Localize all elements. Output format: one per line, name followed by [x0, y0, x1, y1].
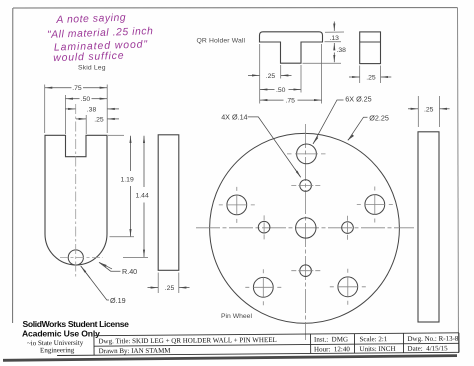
svg-text:A note saying: A note saying — [55, 13, 126, 26]
svg-text:Skid Leg: Skid Leg — [78, 65, 106, 72]
dim .38 — [333, 53, 335, 63]
qr right ext lines — [325, 31, 344, 33]
hole B1 top (6X .25) — [287, 144, 326, 164]
svg-text:Pin Wheel: Pin Wheel — [221, 313, 252, 320]
svg-text:QR Holder Wall: QR Holder Wall — [197, 38, 246, 45]
bottom scan band — [3, 356, 457, 361]
dim 1.19 — [110, 236, 135, 238]
svg-text:1.19: 1.19 — [121, 177, 134, 184]
qr side inner line — [360, 41, 381, 43]
pinwheel side ext lines — [417, 96, 419, 127]
svg-text:would suffice: would suffice — [53, 51, 124, 64]
hole B3 right-upper (6X .25) — [357, 187, 393, 223]
svg-text:.38: .38 — [87, 106, 97, 113]
ext lines side view — [157, 273, 159, 294]
dim .25 qr side — [349, 76, 391, 78]
hole S4 bottom (4X .14) — [291, 265, 320, 277]
svg-text:Ø2.25: Ø2.25 — [369, 113, 389, 122]
svg-text:1.44: 1.44 — [136, 193, 149, 200]
skid leg outline — [45, 135, 107, 265]
svg-text:.75: .75 — [72, 85, 82, 92]
skid side view rect — [158, 135, 179, 270]
border frame left — [12, 8, 14, 323]
dim .50 — [66, 98, 107, 100]
hole S3 right (4X .14) — [342, 216, 354, 240]
svg-text:.25: .25 — [94, 116, 104, 123]
svg-text:.75: .75 — [286, 98, 296, 105]
svg-text:.25: .25 — [424, 106, 434, 113]
extension line left edge — [44, 85, 46, 134]
skid leg hole — [68, 250, 83, 265]
svg-text:SolidWorks Student License: SolidWorks Student License — [23, 319, 130, 329]
svg-text:.38: .38 — [337, 47, 347, 54]
border frame top — [13, 7, 458, 9]
dim .25 side — [148, 287, 190, 289]
extension line slot right — [85, 115, 87, 134]
hole B6 center (6X .25) — [296, 218, 316, 238]
dim .25 — [76, 118, 119, 120]
svg-text:Academic Use Only: Academic Use Only — [22, 328, 100, 338]
table outline — [57, 333, 459, 356]
ext lines below — [259, 44, 261, 104]
svg-text:.25: .25 — [165, 285, 175, 292]
qr wall outline — [260, 32, 323, 63]
hole B5 right-lower (6X .25) — [330, 269, 366, 305]
svg-text:Engineering: Engineering — [40, 346, 75, 354]
svg-text:.13: .13 — [330, 35, 340, 42]
dim .13 — [333, 22, 335, 48]
hole S1 top (4X .14) — [291, 180, 320, 192]
svg-text:.25: .25 — [366, 75, 376, 82]
extension line slot left — [64, 95, 66, 134]
qr side ext lines — [359, 66, 361, 84]
svg-text:.50: .50 — [81, 96, 91, 103]
dim .75 — [45, 87, 107, 89]
skid leg vertical centerline — [75, 104, 77, 278]
handwritten note — [46, 12, 154, 65]
hole B4 left-lower (6X .25) — [245, 269, 281, 305]
dim .38 — [65, 108, 119, 110]
svg-text:6X Ø.25: 6X Ø.25 — [345, 94, 371, 103]
svg-text:R.40: R.40 — [122, 267, 137, 276]
svg-text:Drawn By: IAN STAMM: Drawn By: IAN STAMM — [99, 347, 172, 356]
svg-text:Units: INCH: Units: INCH — [360, 345, 396, 353]
dim 1.44 — [123, 256, 148, 258]
svg-text:"All material .25 inch: "All material .25 inch — [47, 26, 154, 41]
pinwheel side rect — [418, 132, 439, 322]
leader dia .19 — [81, 266, 109, 300]
qr side rect — [360, 32, 381, 64]
svg-text:Scale: 2:1: Scale: 2:1 — [359, 335, 387, 343]
dim .25 qr — [248, 74, 292, 76]
main vertical centerline — [305, 124, 307, 340]
dim .25 pinwheel side — [408, 108, 450, 110]
svg-text:Hour: 12:40: Hour: 12:40 — [314, 345, 350, 353]
svg-text:Dwg. No.: R-13-8: Dwg. No.: R-13-8 — [407, 335, 459, 343]
hole S2 left (4X .14) — [258, 215, 270, 239]
hole B2 left-upper (6X .25) — [219, 187, 255, 223]
extension line top edge right — [108, 134, 124, 136]
skid leg hole horizontal centerline — [60, 257, 103, 259]
border frame right — [458, 8, 459, 353]
svg-text:4X Ø.14: 4X Ø.14 — [221, 113, 247, 122]
svg-text:Dwg. Title: SKID LEG + QR HOLD: Dwg. Title: SKID LEG + QR HOLDER WALL + … — [98, 336, 276, 345]
leader R.40 — [99, 262, 121, 271]
svg-text:Ø.19: Ø.19 — [110, 296, 126, 305]
dim .75 qr — [260, 99, 321, 101]
svg-text:Date: 4/15/15: Date: 4/15/15 — [408, 344, 449, 352]
svg-text:.50: .50 — [276, 87, 286, 94]
pin wheel outer circle — [210, 133, 400, 323]
main horizontal centerline — [196, 227, 414, 229]
svg-text:Inst.: DMG: Inst.: DMG — [314, 335, 348, 343]
dim .50 qr — [260, 89, 301, 91]
extension line right edge — [106, 85, 108, 134]
svg-text:.25: .25 — [266, 73, 276, 80]
